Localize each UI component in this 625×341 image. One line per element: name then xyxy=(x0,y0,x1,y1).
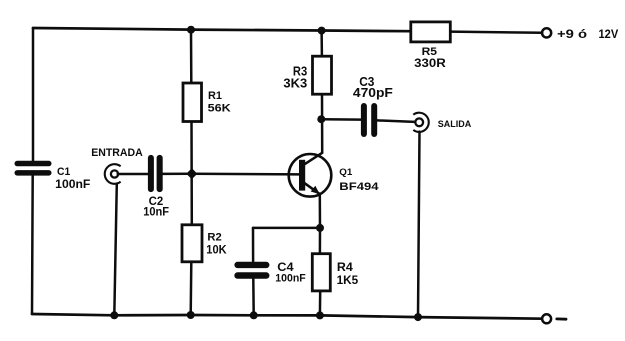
svg-text:10K: 10K xyxy=(206,245,227,257)
svg-text:+9 ó: +9 ó xyxy=(557,27,587,41)
svg-text:C1: C1 xyxy=(57,166,70,178)
svg-text:100nF: 100nF xyxy=(275,273,305,285)
svg-text:R2: R2 xyxy=(207,232,221,244)
svg-text:R1: R1 xyxy=(208,90,222,102)
svg-text:3K3: 3K3 xyxy=(283,77,307,91)
svg-text:12V: 12V xyxy=(599,27,619,41)
svg-text:10nF: 10nF xyxy=(143,207,169,219)
svg-text:470pF: 470pF xyxy=(353,86,393,100)
svg-text:BF494: BF494 xyxy=(339,181,379,193)
svg-text:R4: R4 xyxy=(337,260,353,274)
svg-text:330R: 330R xyxy=(414,56,446,70)
svg-text:ENTRADA: ENTRADA xyxy=(91,147,143,159)
svg-text:56K: 56K xyxy=(208,102,232,114)
svg-text:SALIDA: SALIDA xyxy=(438,119,471,130)
svg-text:1K5: 1K5 xyxy=(337,275,359,287)
svg-text:100nF: 100nF xyxy=(55,179,90,191)
svg-text:Q1: Q1 xyxy=(339,167,353,178)
